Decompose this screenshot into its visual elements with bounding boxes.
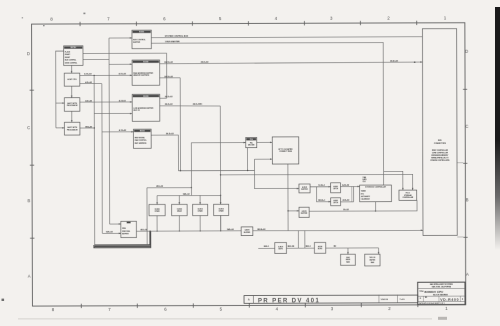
- main bus block text: [430, 140, 449, 162]
- wire: stub into matrix RAM: [254, 158, 272, 160]
- svg-text:512KB: 512KB: [219, 208, 225, 210]
- block two-channel RAM: [365, 254, 380, 266]
- wire: 30+02 line from U13 to RT-11 bottom: [309, 200, 417, 211]
- svg-text:1 BUS MASTER: 1 BUS MASTER: [165, 40, 180, 43]
- block U11 address latch: [331, 183, 341, 193]
- svg-text:24-D+02: 24-D+02: [165, 103, 174, 106]
- svg-text:C: C: [27, 125, 30, 130]
- dram bank 4: [214, 204, 229, 215]
- wire: U3 output to low address buffer: [80, 101, 132, 103]
- dram bank 1: [149, 204, 165, 215]
- wire: U1 to U2 vertical: [71, 65, 73, 73]
- svg-text:TITLE: TITLE: [419, 291, 423, 293]
- svg-text:BUFFER: BUFFER: [122, 233, 129, 235]
- scan artifact: bottom shadow streak: [18, 318, 432, 319]
- svg-text:DRIVE: DRIVE: [346, 259, 351, 261]
- svg-text:545+02: 545+02: [227, 228, 235, 231]
- wire: U2 to U3 vertical: [71, 86, 73, 98]
- block U1 bus state controller: [64, 46, 83, 66]
- svg-text:TIME: TIME: [363, 177, 367, 179]
- svg-text:CONTROLLER: CONTROLLER: [402, 197, 414, 199]
- wire: system control bus to main bus block: [151, 36, 422, 39]
- wire: horizontal link y170: [178, 169, 254, 171]
- wire: vertical bus V94: [93, 75, 96, 245]
- svg-text:B20-1: B20-1: [306, 246, 311, 248]
- block U7 low address buffer: [132, 94, 160, 121]
- dram bank 2: [172, 204, 188, 215]
- wire: map address output to PAL via lower route: [151, 135, 178, 171]
- block U6 RAM address buffer: [132, 60, 160, 85]
- svg-text:TWO-CH: TWO-CH: [369, 257, 375, 259]
- svg-text:SYSTEM I/O CONTROLLER: SYSTEM I/O CONTROLLER: [365, 187, 386, 189]
- wire: V254 down to A-bus buffer U10: [254, 159, 298, 189]
- svg-text:4-15+02: 4-15+02: [119, 73, 127, 76]
- wire: U1 output to bus V167: [83, 53, 167, 98]
- svg-text:DECODE: DECODE: [248, 145, 254, 147]
- wire: branch down to address latch U12: [316, 187, 330, 202]
- wire: double stub at system controller left: [352, 186, 354, 201]
- wire: U3 to U4 vertical: [71, 111, 73, 122]
- block U12 address latch 2: [331, 198, 341, 206]
- svg-text:453+02: 453+02: [156, 185, 164, 188]
- wire: A-bus buffer U10 to address latch U11: [310, 186, 331, 188]
- title block: [418, 282, 465, 305]
- svg-text:B20-1B: B20-1B: [288, 246, 295, 248]
- svg-text:529+02: 529+02: [106, 232, 114, 234]
- svg-text:CORE CONTROLLER: CORE CONTROLLER: [432, 152, 449, 154]
- svg-text:A.B+02: A.B+02: [343, 199, 351, 202]
- wire: vertical bus V220: [219, 106, 221, 231]
- svg-text:BUFFER: BUFFER: [244, 232, 251, 234]
- svg-text:BUFFER: BUFFER: [301, 189, 308, 191]
- svg-text:BU266: BU266: [139, 32, 144, 34]
- svg-text:30+02: 30+02: [343, 209, 350, 211]
- wire: RAM address buffer output 2 to V180: [160, 77, 181, 79]
- svg-text:SYSTEM CONTROL BUS: SYSTEM CONTROL BUS: [165, 36, 189, 38]
- svg-text:BLOCK DIAGRAM: BLOCK DIAGRAM: [433, 293, 448, 296]
- svg-text:24-D+02: 24-D+02: [201, 61, 210, 64]
- svg-text:24-D+02: 24-D+02: [165, 95, 174, 98]
- block U5 bus control buffer: [132, 30, 151, 49]
- frame border: [32, 23, 466, 306]
- svg-text:BUFFER: BUFFER: [301, 213, 308, 215]
- wire: V304 from bus to byte row: [304, 231, 306, 248]
- svg-text:DESK CONTROL: DESK CONTROL: [65, 62, 77, 64]
- svg-text:FIRST CONTROLLER: FIRST CONTROLLER: [432, 150, 449, 152]
- wire: 453+02 line: [147, 187, 191, 189]
- bus: main system bus: [136, 229, 423, 232]
- svg-text:P16: P16: [250, 139, 253, 141]
- wire: branch from V384 to RT-11 controller: [384, 171, 403, 190]
- svg-text:CONNECT RAM: CONNECT RAM: [279, 150, 292, 153]
- wire: main bus block stub right lower: [457, 236, 463, 238]
- wire: drops into DRAM banks: [156, 196, 158, 205]
- revision strip: [244, 295, 418, 305]
- svg-text:PROCESSOR: PROCESSOR: [67, 105, 79, 107]
- svg-text:BUFFER: BUFFER: [133, 42, 141, 44]
- svg-text:512KB: 512KB: [198, 208, 204, 210]
- svg-text:453+02: 453+02: [140, 228, 148, 231]
- wire: U4 output 805+05: [80, 127, 94, 129]
- svg-text:7-4-9: 7-4-9: [399, 298, 405, 301]
- block U3 shift byte processor: [64, 98, 79, 112]
- wire: PAL bottom drop to y170 link: [247, 148, 249, 171]
- wire: host cpu output 4-15+02 to RAM address buffer: [80, 74, 132, 76]
- block matrix connect RAM: [272, 137, 299, 164]
- scan speck top: [83, 13, 85, 15]
- svg-text:4-D+02: 4-D+02: [85, 99, 93, 102]
- block U18 byte buffer 2: [314, 242, 325, 253]
- svg-text:512KB: 512KB: [177, 208, 183, 210]
- svg-text:24-10+02: 24-10+02: [164, 75, 173, 78]
- svg-text:B: B: [28, 198, 31, 203]
- svg-text:A: A: [466, 272, 469, 277]
- wire: drop into two-channel RAM: [378, 248, 380, 254]
- wire: DRAM banks to system bus: [156, 216, 158, 231]
- svg-text:A: A: [28, 274, 31, 279]
- label above system I/O controller: [363, 177, 367, 183]
- wire: latch U12 output: [341, 201, 354, 203]
- block U2 host cpu: [64, 73, 79, 86]
- svg-text:4-D+02: 4-D+02: [85, 81, 93, 84]
- svg-text:MUX I/O: MUX I/O: [133, 110, 140, 112]
- svg-text:512KB: 512KB: [155, 209, 161, 211]
- wire: V191 to DRAM feed: [190, 143, 192, 196]
- svg-text:B6262: B6262: [140, 131, 145, 133]
- svg-text:B: B: [466, 197, 469, 202]
- svg-text:24-D+SEC: 24-D+SEC: [193, 103, 203, 106]
- svg-text:PROCESSOR: PROCESSOR: [67, 129, 79, 131]
- svg-text:RT-11: RT-11: [406, 192, 410, 194]
- svg-text:4-15+02: 4-15+02: [119, 129, 127, 132]
- zone tick marks top border: [79, 22, 81, 26]
- wire: PAL left feed line: [191, 142, 245, 144]
- svg-text:24-D+02: 24-D+02: [390, 59, 399, 62]
- wire: feed line into left column blocks: [56, 51, 64, 128]
- svg-text:PR PER DV 401: PR PER DV 401: [258, 298, 320, 304]
- block U16 keyboard bus buffer: [241, 227, 253, 236]
- svg-text:545+02: 545+02: [183, 193, 191, 196]
- svg-text:1/24-99: 1/24-99: [380, 298, 388, 301]
- svg-text:C: C: [465, 124, 468, 129]
- svg-text:BUS CONTROL: BUS CONTROL: [65, 60, 76, 62]
- block U4 shift byte processor 2: [64, 122, 79, 135]
- block U14 system I/O controller: [360, 185, 392, 202]
- svg-text:HOST CPU: HOST CPU: [67, 79, 77, 81]
- wire: latch U11 output to system I/O controller: [340, 185, 359, 187]
- wire: long middle line from V220 to RT-11 controller: [221, 174, 413, 190]
- zone tick marks left border: [30, 89, 34, 91]
- svg-text:RESET: RESET: [65, 57, 70, 59]
- wire: system I/O controller bottom drop: [375, 202, 377, 211]
- wire: vertical bus V109 with branch to bus control buffer and RAM address buffer: [108, 38, 111, 224]
- wire: main bus block stub right upper: [457, 162, 463, 164]
- svg-text:OTHERS CONTROLLERS: OTHERS CONTROLLERS: [430, 160, 449, 162]
- zone tick marks bottom border: [80, 304, 82, 308]
- svg-text:8300D/V CPU: 8300D/V CPU: [424, 290, 443, 294]
- svg-text:D: D: [27, 51, 30, 56]
- svg-text:B20-1: B20-1: [264, 246, 269, 248]
- svg-text:D: D: [465, 49, 468, 54]
- wire: byte row line segments: [258, 247, 275, 249]
- block U10 A-bus buffer: [299, 184, 310, 193]
- block disk drive RAM: [341, 254, 356, 265]
- svg-text:A-B+02: A-B+02: [342, 183, 350, 186]
- wire: RAM address buffer output 24-D+02 to main bus block: [160, 62, 423, 64]
- svg-text:12-B+1: 12-B+1: [318, 185, 326, 187]
- block U17 byte buffer 1: [275, 243, 287, 254]
- wire: drop into disk drive RAM: [347, 248, 349, 254]
- zone tick marks right border: [463, 88, 467, 90]
- svg-text:24-10+02: 24-10+02: [164, 61, 173, 64]
- wire: matrix RAM bottom to A-bus buffer U13: [287, 164, 289, 231]
- svg-text:4-15+02: 4-15+02: [84, 73, 92, 76]
- svg-text:BU268: BU268: [143, 61, 148, 63]
- svg-text:BU269: BU269: [143, 96, 148, 98]
- svg-text:VD-R400: VD-R400: [440, 298, 459, 302]
- svg-text:B2: B2: [334, 246, 336, 248]
- scan speck left edge: [2, 299, 5, 301]
- wire: 1 bus master line to V384 down to system I/O controller: [151, 42, 383, 185]
- block PAL decoder: [246, 137, 257, 147]
- block main bus connectors: [422, 29, 457, 236]
- svg-text:CONNECTORS: CONNECTORS: [434, 143, 447, 145]
- block U15 RT-11 storage controller: [399, 190, 417, 200]
- svg-text:B2C9H: B2C9H: [71, 47, 77, 49]
- svg-text:B2-B+02: B2-B+02: [257, 229, 266, 231]
- svg-text:24-D+02: 24-D+02: [166, 132, 175, 135]
- svg-text:MEMORY BUFFERS: MEMORY BUFFERS: [133, 75, 150, 77]
- wire: vertical bus V102 with branch to map address block and DMA buffer: [101, 84, 103, 234]
- wire: under-loop double line to system bus: [95, 231, 150, 245]
- wire: low address buffer output 1: [160, 97, 167, 99]
- block U9 disk DMA buffer: [121, 221, 137, 237]
- wire: V298 from bus to byte row: [297, 231, 299, 248]
- wire: U1 output 2 to V109: [83, 59, 109, 61]
- svg-text:A: A: [248, 298, 250, 302]
- wire: low address buffer output 24-D+SEC to V220: [160, 105, 221, 107]
- svg-text:805+05: 805+05: [85, 126, 93, 128]
- wire: PAL output to matrix RAM: [257, 141, 272, 143]
- svg-text:4-15-02: 4-15-02: [119, 99, 127, 102]
- block U13 A-bus buffer 2: [299, 207, 309, 217]
- svg-text:B2-B+1: B2-B+1: [318, 200, 326, 202]
- wire: host cpu output 4-D+02 to V102: [80, 83, 102, 85]
- block U8 map address: [133, 129, 151, 148]
- wire: DRAM feed line 545+02: [157, 194, 220, 196]
- dram bank 3: [193, 204, 208, 215]
